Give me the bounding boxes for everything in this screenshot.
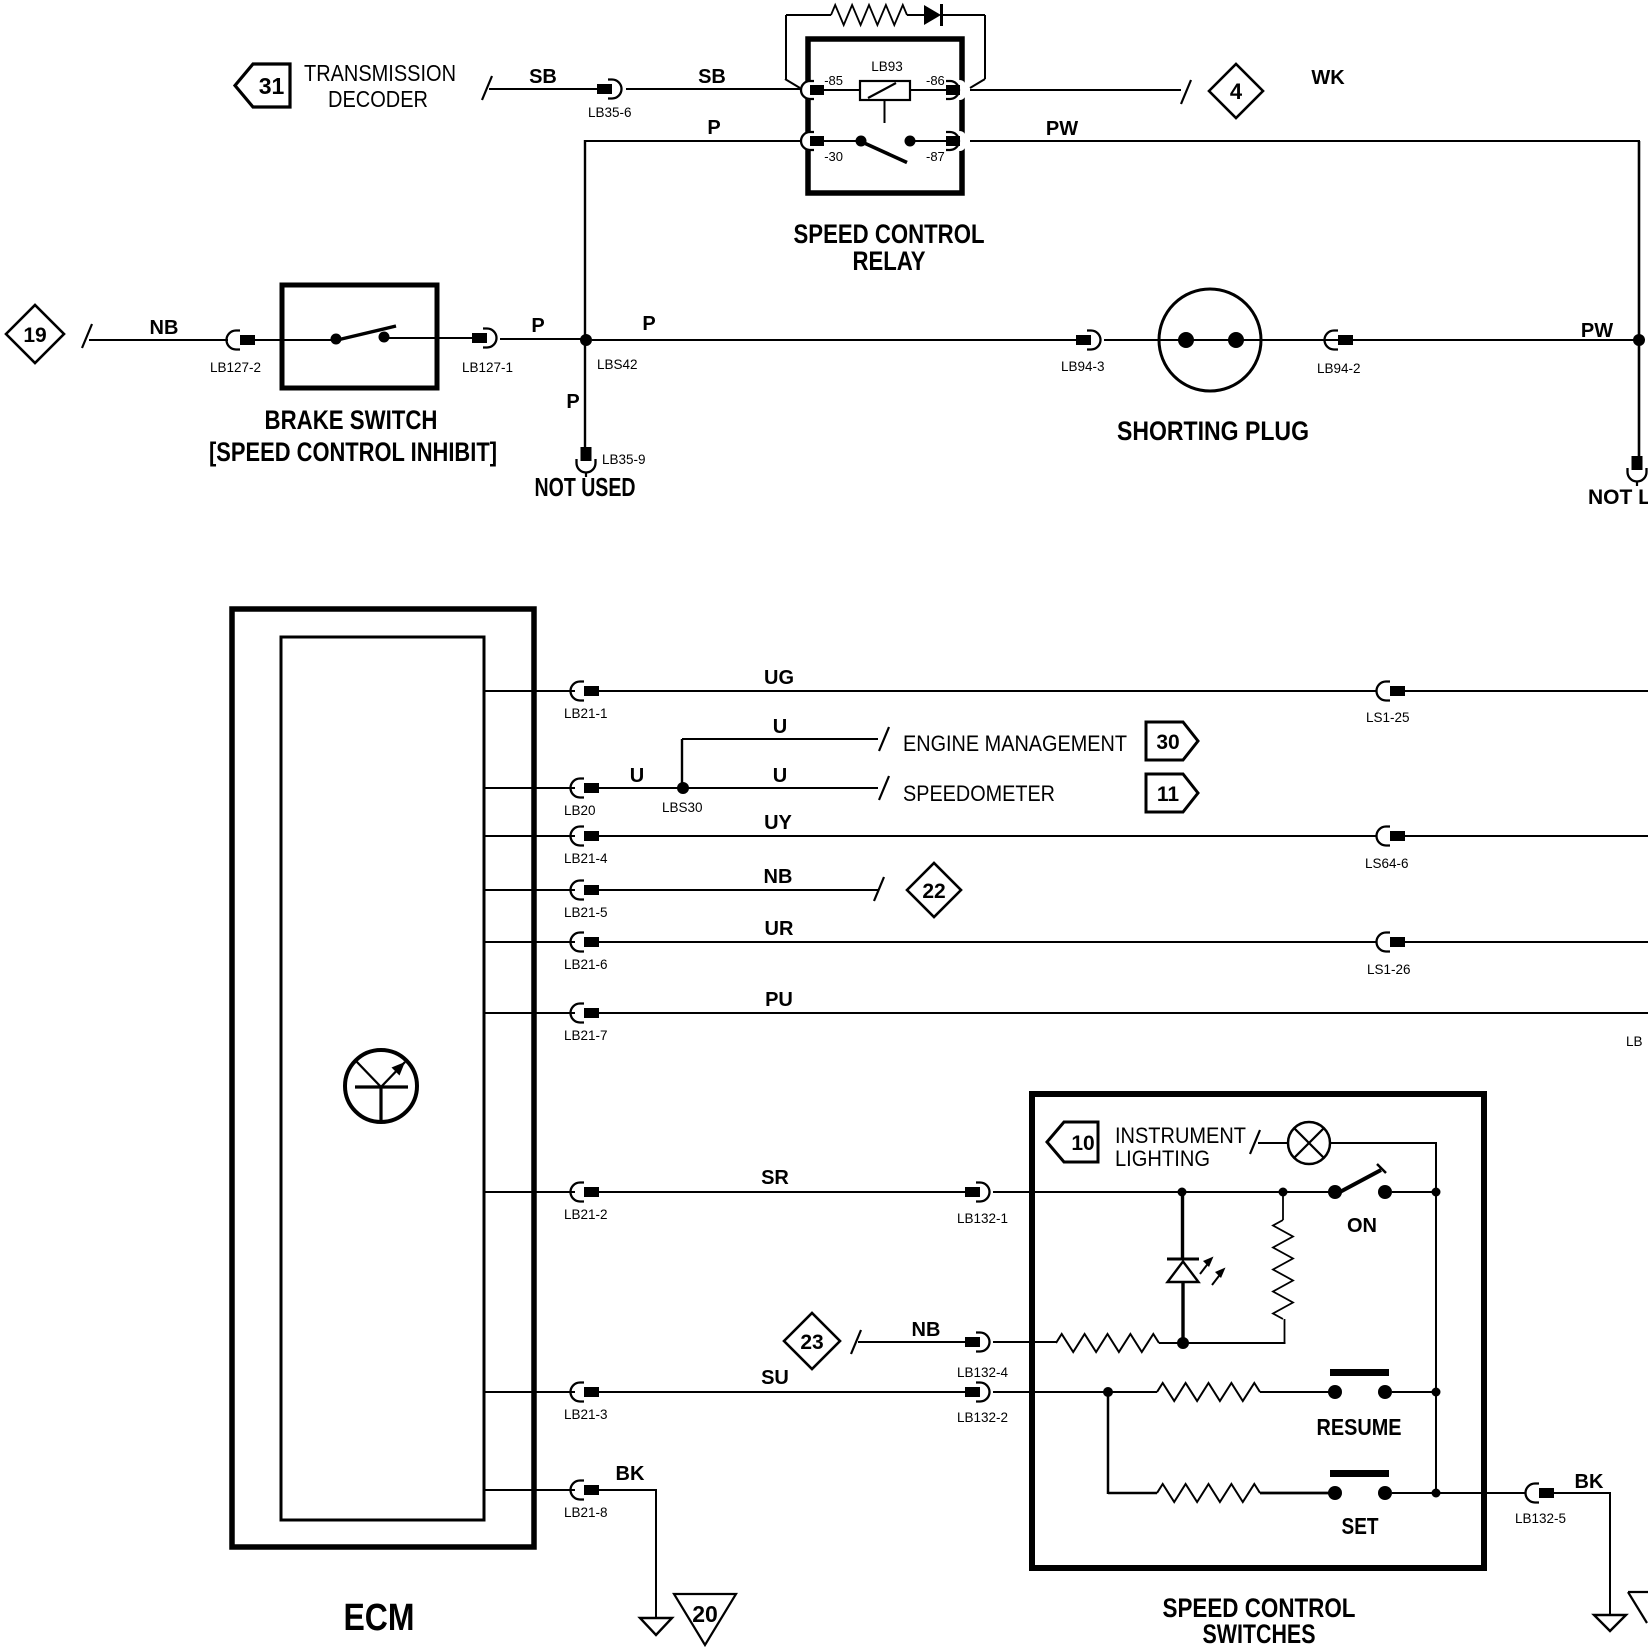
svg-text:SHORTING PLUG: SHORTING PLUG [1117, 416, 1309, 446]
svg-text:-86: -86 [926, 73, 945, 88]
svg-text:22: 22 [922, 880, 945, 903]
svg-text:30: 30 [1156, 731, 1179, 754]
svg-text:SR: SR [761, 1167, 789, 1189]
svg-text:SET: SET [1342, 1513, 1379, 1539]
svg-text:19: 19 [23, 324, 46, 347]
svg-text:NB: NB [912, 1319, 941, 1341]
svg-text:LB132-5: LB132-5 [1515, 1511, 1566, 1526]
svg-text:NB: NB [150, 317, 179, 339]
svg-text:DECODER: DECODER [328, 86, 428, 112]
svg-text:LB132-1: LB132-1 [957, 1211, 1008, 1226]
svg-text:ENGINE MANAGEMENT: ENGINE MANAGEMENT [903, 731, 1127, 756]
svg-text:P: P [531, 315, 544, 337]
svg-text:LB127-2: LB127-2 [210, 360, 261, 375]
svg-text:PW: PW [1581, 320, 1613, 342]
svg-text:LB35-6: LB35-6 [588, 105, 632, 120]
svg-text:BRAKE SWITCH: BRAKE SWITCH [265, 405, 438, 435]
svg-text:SWITCHES: SWITCHES [1203, 1619, 1316, 1649]
svg-text:SU: SU [761, 1367, 789, 1389]
svg-text:SPEEDOMETER: SPEEDOMETER [903, 781, 1055, 806]
svg-text:UR: UR [765, 918, 794, 940]
svg-text:LB21-6: LB21-6 [564, 957, 608, 972]
svg-text:[SPEED CONTROL INHIBIT]: [SPEED CONTROL INHIBIT] [209, 437, 497, 467]
svg-text:SB: SB [529, 66, 557, 88]
svg-text:LB21-7: LB21-7 [564, 1028, 608, 1043]
svg-text:LB94-3: LB94-3 [1061, 359, 1105, 374]
svg-text:SB: SB [698, 66, 726, 88]
svg-text:UY: UY [764, 812, 792, 834]
svg-text:U: U [773, 765, 787, 787]
svg-text:LB21-4: LB21-4 [564, 851, 608, 866]
svg-text:LIGHTING: LIGHTING [1115, 1146, 1210, 1171]
svg-text:PW: PW [1046, 118, 1078, 140]
svg-text:LB35-9: LB35-9 [602, 452, 646, 467]
svg-text:LB21-2: LB21-2 [564, 1207, 608, 1222]
svg-text:LB20: LB20 [564, 803, 596, 818]
svg-text:11: 11 [1157, 783, 1180, 806]
svg-text:31: 31 [259, 73, 285, 99]
svg-text:20: 20 [692, 1601, 718, 1627]
svg-text:WK: WK [1311, 67, 1345, 89]
svg-text:LB127-1: LB127-1 [462, 360, 513, 375]
svg-text:NOT USED: NOT USED [535, 472, 636, 502]
svg-text:4: 4 [1230, 79, 1243, 104]
svg-text:U: U [630, 765, 644, 787]
svg-text:23: 23 [800, 1331, 823, 1354]
svg-text:UG: UG [764, 667, 794, 689]
svg-text:P: P [566, 391, 579, 413]
svg-text:RESUME: RESUME [1317, 1414, 1402, 1440]
svg-text:TRANSMISSION: TRANSMISSION [304, 60, 456, 86]
svg-text:-85: -85 [824, 73, 843, 88]
svg-text:P: P [642, 313, 655, 335]
svg-text:ON: ON [1347, 1215, 1377, 1237]
svg-text:LB: LB [1626, 1034, 1643, 1049]
svg-text:ECM: ECM [344, 1597, 415, 1639]
svg-text:LB132-4: LB132-4 [957, 1365, 1009, 1380]
svg-text:U: U [773, 716, 787, 738]
svg-text:NB: NB [764, 866, 793, 888]
svg-text:RELAY: RELAY [853, 246, 926, 276]
svg-text:BK: BK [1575, 1471, 1604, 1493]
svg-text:SPEED CONTROL: SPEED CONTROL [794, 219, 985, 249]
svg-text:LB93: LB93 [871, 59, 903, 74]
svg-text:NOT L: NOT L [1588, 486, 1648, 509]
svg-text:10: 10 [1071, 1132, 1094, 1155]
svg-text:LB21-8: LB21-8 [564, 1505, 608, 1520]
svg-text:LB132-2: LB132-2 [957, 1410, 1008, 1425]
svg-text:LB21-1: LB21-1 [564, 706, 608, 721]
svg-text:-87: -87 [926, 149, 945, 164]
svg-text:INSTRUMENT: INSTRUMENT [1115, 1123, 1246, 1148]
svg-text:LS64-6: LS64-6 [1365, 856, 1409, 871]
svg-text:LB94-2: LB94-2 [1317, 361, 1361, 376]
svg-text:LB21-5: LB21-5 [564, 905, 608, 920]
svg-text:BK: BK [616, 1463, 645, 1485]
svg-text:PU: PU [765, 989, 793, 1011]
svg-text:LS1-26: LS1-26 [1367, 962, 1411, 977]
svg-text:P: P [707, 117, 720, 139]
svg-text:LS1-25: LS1-25 [1366, 710, 1410, 725]
svg-text:-30: -30 [824, 149, 843, 164]
svg-text:LBS30: LBS30 [662, 800, 703, 815]
svg-text:LBS42: LBS42 [597, 357, 638, 372]
svg-text:LB21-3: LB21-3 [564, 1407, 608, 1422]
